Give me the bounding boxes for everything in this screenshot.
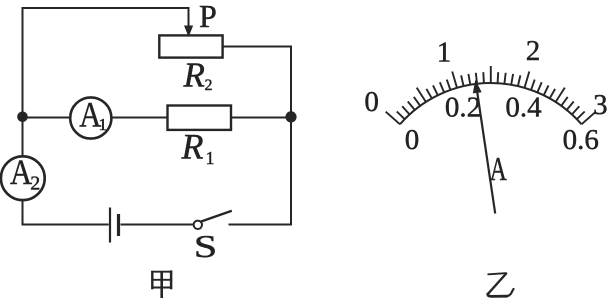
switch S pivot circle (194, 221, 202, 229)
svg-text:1: 1 (437, 36, 452, 68)
svg-text:R: R (183, 55, 205, 94)
wire left rail node to A2 (22, 118, 24, 157)
svg-text:P: P (199, 0, 217, 34)
wire A2 to bottom rail (23, 200, 109, 225)
meter tick marks (386, 66, 596, 124)
wire middle rail: node to A1 (23, 117, 71, 119)
svg-text:0: 0 (405, 124, 420, 156)
svg-text:A: A (490, 151, 507, 188)
svg-text:1: 1 (99, 115, 108, 134)
wire right rail vertical bottom (290, 118, 292, 226)
resistor R1 body (168, 106, 232, 130)
wire R2 right to right rail (223, 47, 291, 119)
wire A1 to R1 (111, 117, 167, 119)
svg-text:0.2: 0.2 (445, 92, 481, 124)
meter needle arrowhead (473, 80, 482, 94)
svg-text:0.4: 0.4 (505, 92, 542, 124)
svg-text:1: 1 (206, 148, 215, 168)
wire battery to switch (121, 224, 194, 226)
meter scale arc (400, 83, 581, 124)
battery long plate (+) (109, 208, 111, 243)
label yi (乙) (488, 273, 514, 296)
svg-text:R: R (181, 127, 204, 167)
svg-text:2: 2 (30, 173, 40, 195)
svg-text:0: 0 (364, 86, 379, 118)
svg-text:2: 2 (205, 77, 213, 94)
meter needle (477, 92, 495, 214)
wire switch to right rail (229, 224, 293, 226)
potentiometer R2 body (159, 35, 222, 57)
node right junction (285, 111, 296, 122)
svg-text:3: 3 (593, 89, 608, 121)
slider arrow P onto R2 (185, 26, 192, 35)
label jia (甲) (151, 270, 172, 298)
ammeter A1 circle (70, 97, 111, 138)
svg-text:A: A (10, 153, 32, 193)
svg-text:2: 2 (526, 35, 541, 67)
wire top-left vertical (left rail top) (22, 7, 24, 118)
wire top horizontal (22, 8, 189, 26)
svg-text:S: S (194, 230, 217, 265)
switch S lever (201, 211, 232, 222)
svg-text:0.6: 0.6 (563, 124, 599, 156)
battery short plate (-) (117, 214, 120, 236)
ammeter A2 circle (1, 156, 45, 200)
wire R1 to right node (231, 117, 291, 119)
node left junction (17, 112, 28, 123)
